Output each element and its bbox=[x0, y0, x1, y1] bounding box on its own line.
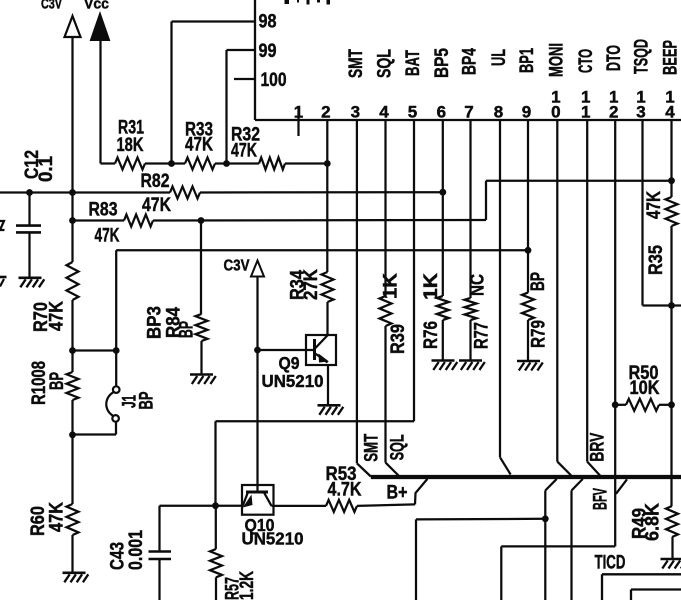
ground C12 bbox=[19, 276, 42, 279]
svg-text:SQL: SQL bbox=[387, 434, 408, 460]
svg-text:1K: 1K bbox=[421, 273, 442, 300]
svg-text:1: 1 bbox=[551, 88, 560, 107]
svg-text:3: 3 bbox=[351, 103, 360, 122]
bus exit BFV bbox=[572, 479, 583, 491]
svg-text:4: 4 bbox=[379, 103, 389, 122]
capacitor C12 bbox=[28, 193, 30, 225]
svg-text:BP1: BP1 bbox=[517, 48, 538, 73]
ground Q9 emitter bbox=[318, 404, 341, 407]
svg-text:7: 7 bbox=[464, 103, 473, 122]
node pin14/R83 junction bbox=[668, 177, 675, 184]
svg-text:R82: R82 bbox=[141, 171, 170, 192]
bus entry MONI bbox=[557, 462, 571, 476]
wire pin10 down bbox=[556, 120, 558, 462]
wire C3V line to R83 bbox=[73, 219, 125, 221]
svg-text:6: 6 bbox=[437, 103, 446, 122]
wire DTO link horizontal bbox=[501, 545, 615, 547]
resistor R79 bbox=[522, 293, 534, 320]
svg-text:R83: R83 bbox=[89, 200, 118, 221]
svg-text:1: 1 bbox=[609, 88, 618, 107]
bus entry SMT bbox=[357, 463, 371, 476]
wire Vcc to R31 bbox=[101, 162, 116, 164]
node pin2/R32 junction bbox=[324, 160, 331, 167]
capacitor C43 bbox=[149, 550, 172, 553]
wire pin14 down bbox=[670, 120, 672, 197]
wire pin5 down bbox=[413, 120, 415, 421]
wire R32 to pin2 line bbox=[285, 162, 327, 164]
left edge partial glyph bbox=[0, 221, 5, 230]
svg-text:47K: 47K bbox=[185, 135, 213, 156]
svg-text:BP4: BP4 bbox=[460, 48, 481, 75]
resistor R70 bbox=[67, 262, 79, 300]
svg-text:SMT: SMT bbox=[346, 49, 367, 78]
block outline (bottom right outer) bbox=[602, 573, 681, 575]
resistor R57 bbox=[215, 506, 217, 549]
resistor R83 bbox=[124, 215, 153, 227]
wire Q10 base left segment bbox=[160, 505, 243, 507]
wire pin4 down bbox=[384, 120, 386, 296]
IC U? box left edge bbox=[254, 0, 256, 120]
svg-text:1: 1 bbox=[294, 103, 303, 122]
transistor Q10 UN5210 bbox=[242, 485, 274, 515]
svg-text:47K: 47K bbox=[95, 226, 120, 247]
resistor R84 bbox=[200, 221, 202, 315]
jumper J1 bbox=[115, 351, 117, 387]
node pin99/R33 junction bbox=[223, 160, 230, 167]
node pin13/pin14 junction bbox=[668, 302, 675, 309]
svg-text:27K: 27K bbox=[301, 269, 322, 300]
node C12 top bbox=[26, 189, 33, 196]
resistor R82 bbox=[170, 187, 200, 199]
svg-text:UL: UL bbox=[489, 49, 510, 66]
ground R76 bbox=[432, 359, 455, 362]
bus entry BRV bbox=[587, 462, 600, 476]
svg-text:C3V: C3V bbox=[41, 0, 62, 13]
wire pin13 down and right bbox=[641, 120, 643, 306]
pin 100 stub bbox=[234, 78, 255, 80]
svg-text:Vcc: Vcc bbox=[84, 0, 109, 13]
transistor Q9 UN5210 bbox=[306, 335, 336, 365]
resistor R39 bbox=[380, 296, 392, 326]
left edge partial ground bbox=[0, 276, 7, 279]
svg-text:47K: 47K bbox=[47, 502, 68, 532]
wire pin11 down bbox=[586, 120, 588, 462]
wire R39 down bbox=[384, 326, 386, 463]
node R50 left bbox=[612, 401, 619, 408]
wire C43 corner bbox=[158, 506, 160, 551]
resistor R53 bbox=[326, 500, 357, 512]
resistor R49 bbox=[666, 506, 678, 537]
svg-text:6.8K: 6.8K bbox=[643, 503, 664, 541]
pin 1 tick bbox=[297, 107, 299, 136]
bus exit to B+ sub-rail bbox=[545, 479, 556, 491]
wire R82 to pin6 bbox=[200, 191, 443, 194]
svg-text:1K: 1K bbox=[381, 273, 402, 299]
svg-text:UN5210: UN5210 bbox=[262, 371, 324, 391]
svg-text:BP: BP bbox=[137, 391, 158, 409]
svg-text:BP3: BP3 bbox=[145, 306, 166, 339]
wire R83 to step bbox=[153, 219, 486, 222]
svg-text:47K: 47K bbox=[47, 301, 68, 331]
bus exit DTO bbox=[616, 479, 627, 494]
wire step to pin14 line bbox=[486, 180, 672, 182]
node pin98/R31 junction bbox=[168, 160, 175, 167]
wire pin7 down bbox=[469, 120, 471, 298]
wire pin9 down bbox=[527, 120, 529, 293]
pin 99 wire bbox=[227, 49, 256, 51]
wire pin12 down bbox=[614, 120, 616, 546]
svg-text:B+: B+ bbox=[387, 483, 408, 504]
wire J1 to pin9 (BP net) bbox=[116, 249, 528, 251]
svg-text:5: 5 bbox=[408, 103, 417, 122]
svg-text:BP: BP bbox=[177, 321, 198, 338]
svg-text:1.2K: 1.2K bbox=[237, 571, 258, 600]
wire pin14 below R50 bbox=[670, 405, 672, 506]
resistor R1008 bbox=[71, 351, 73, 373]
svg-text:47K: 47K bbox=[644, 191, 665, 219]
wire pin8 down bbox=[499, 120, 501, 457]
node R50 right bbox=[668, 401, 675, 408]
node R84 tap bbox=[198, 217, 205, 224]
svg-text:2: 2 bbox=[321, 103, 330, 122]
node J1 top tap bbox=[113, 347, 120, 354]
wire pin3 down bbox=[356, 120, 358, 463]
node C3V line / Q9 base bbox=[254, 347, 261, 354]
ground R79 bbox=[517, 360, 540, 363]
wire BAT down to Q10 base bbox=[214, 421, 216, 506]
svg-text:TSQD: TSQD bbox=[632, 39, 653, 74]
wire left edge to R82 bbox=[0, 191, 170, 193]
resistor R77 bbox=[465, 298, 477, 320]
wire R33-R32 bbox=[215, 162, 259, 164]
wire pin6 down bbox=[442, 120, 444, 296]
svg-text:BRV: BRV bbox=[588, 432, 609, 461]
svg-text:CTO: CTO bbox=[576, 49, 597, 73]
node C3V line / R83 rail bbox=[69, 217, 76, 224]
svg-text:0.1: 0.1 bbox=[36, 156, 57, 182]
svg-text:TICD: TICD bbox=[595, 553, 626, 574]
svg-text:SMT: SMT bbox=[362, 434, 383, 462]
svg-text:1: 1 bbox=[581, 88, 590, 107]
ground R77 bbox=[459, 359, 482, 362]
bus entry UL bbox=[500, 457, 511, 474]
svg-text:18K: 18K bbox=[117, 135, 144, 156]
ground R49 bbox=[661, 558, 681, 561]
svg-text:9: 9 bbox=[522, 103, 531, 122]
resistor R76 bbox=[437, 296, 449, 320]
svg-text:BP: BP bbox=[47, 372, 68, 390]
svg-text:BFV: BFV bbox=[591, 488, 612, 510]
resistor R35 bbox=[666, 197, 678, 226]
node pin6/R82 junction bbox=[439, 189, 446, 196]
svg-text:SQL: SQL bbox=[375, 49, 396, 78]
node C3V line / R82 rail bbox=[69, 189, 76, 196]
resistor R60 bbox=[71, 436, 73, 504]
svg-text:R35: R35 bbox=[646, 245, 667, 275]
ground R60 bbox=[63, 571, 86, 574]
svg-text:4.7K: 4.7K bbox=[328, 480, 362, 501]
resistor R34 bbox=[322, 272, 334, 302]
resistor R33 bbox=[185, 158, 215, 170]
resistor R50 bbox=[626, 399, 659, 411]
wire pin2 down bbox=[326, 120, 328, 272]
wire step up bbox=[485, 181, 487, 220]
svg-text:98: 98 bbox=[259, 12, 277, 33]
svg-text:BP5: BP5 bbox=[432, 48, 453, 78]
svg-text:47K: 47K bbox=[142, 195, 171, 216]
svg-text:1: 1 bbox=[636, 88, 645, 107]
bus entry SQL bbox=[386, 463, 400, 477]
svg-text:MONI: MONI bbox=[546, 43, 567, 77]
svg-text:UN5210: UN5210 bbox=[242, 529, 304, 549]
block outline (bottom right inner) bbox=[631, 588, 681, 590]
resistor R31 bbox=[115, 158, 145, 170]
svg-text:NC: NC bbox=[468, 274, 489, 296]
svg-text:R79: R79 bbox=[529, 320, 550, 348]
wire R53 to bus bbox=[357, 504, 415, 506]
ground R84 bbox=[190, 373, 213, 376]
wire R70 to node bbox=[71, 300, 73, 351]
svg-text:0.001: 0.001 bbox=[126, 530, 147, 570]
svg-text:BEEP: BEEP bbox=[661, 40, 681, 75]
wire R31-R33 bbox=[145, 162, 185, 164]
node R1008/J1 bottom bbox=[69, 431, 76, 438]
svg-text:R77: R77 bbox=[472, 322, 493, 349]
svg-text:Q9: Q9 bbox=[279, 353, 300, 373]
resistor R32 bbox=[259, 158, 285, 170]
svg-text:99: 99 bbox=[259, 41, 277, 62]
wire BAT horizontal bbox=[216, 420, 415, 422]
svg-text:BAT: BAT bbox=[403, 50, 424, 76]
svg-text:47K: 47K bbox=[231, 141, 257, 162]
svg-text:100: 100 bbox=[261, 70, 287, 91]
node Q10 base junction bbox=[212, 502, 219, 509]
wire Q9 base bbox=[258, 349, 315, 351]
IC top edge partial glyphs bbox=[285, 0, 290, 4]
node pin9/BP junction bbox=[525, 247, 532, 254]
svg-text:C3V: C3V bbox=[224, 258, 251, 275]
svg-text:R39: R39 bbox=[388, 324, 409, 354]
node B+ sub-rail junction bbox=[542, 515, 549, 522]
wire B+ sub-rail horizontal bbox=[416, 518, 545, 521]
svg-text:BP: BP bbox=[528, 272, 549, 291]
pin 98 wire bbox=[172, 20, 256, 22]
power symbol Vcc (filled supply arrow) bbox=[99, 39, 101, 164]
bus B+ (thick line) bbox=[371, 475, 681, 479]
power symbol C3V (Q10 supply) bbox=[251, 261, 264, 277]
svg-text:8: 8 bbox=[494, 103, 503, 122]
wire node to J1 top bbox=[73, 349, 117, 351]
svg-text:R76: R76 bbox=[421, 321, 442, 349]
svg-text:1: 1 bbox=[665, 88, 674, 107]
node R70/R1008/J1 bbox=[69, 347, 76, 354]
power symbol C3V (top-left supply arrow) bbox=[71, 37, 73, 262]
IC U? box bottom edge bbox=[255, 119, 681, 121]
svg-text:10K: 10K bbox=[630, 378, 660, 399]
svg-text:DTO: DTO bbox=[604, 45, 625, 71]
